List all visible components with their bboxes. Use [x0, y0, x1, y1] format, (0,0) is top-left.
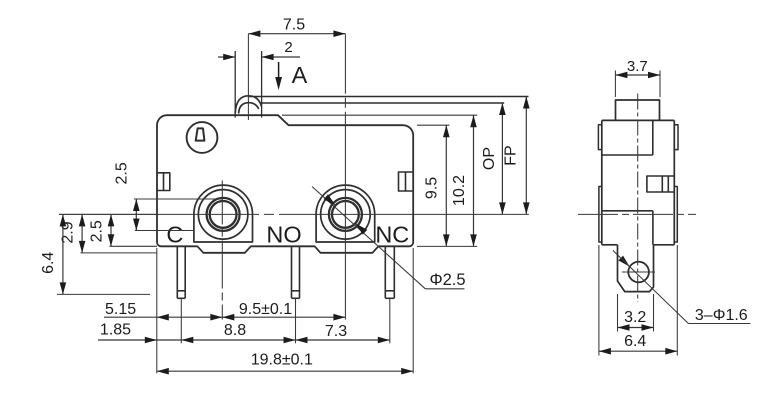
front left lower flange: [599, 187, 602, 243]
svg-text:NC: NC: [375, 222, 409, 248]
dim 3.2 line: [618, 327, 654, 329]
ref line inner-hole top ext: [134, 198, 222, 200]
dim OP: [501, 103, 503, 214]
svg-text:2.5: 2.5: [89, 220, 106, 242]
body detail circle: [187, 122, 218, 153]
dim 3.7 line: [615, 74, 660, 76]
svg-text:NO: NO: [266, 222, 301, 248]
svg-text:7.3: 7.3: [325, 323, 347, 340]
leader 3-phi1.6: [618, 256, 629, 267]
dim 9.5+-0.1: [222, 316, 345, 318]
dim 19.8+-0.1: [157, 370, 413, 372]
ref line pin bottom ext: [57, 293, 150, 295]
lever curl outer arc: [235, 96, 261, 114]
svg-text:9.5: 9.5: [424, 177, 441, 199]
dim 3.2 ext: [617, 294, 619, 332]
svg-text:8.8: 8.8: [224, 322, 246, 339]
ext left pin center: [180, 298, 182, 343]
svg-text:5.15: 5.15: [105, 301, 136, 318]
right terminal pin: [385, 246, 394, 298]
dim 2.9: [81, 214, 83, 253]
front left upper ear: [598, 125, 601, 150]
left tab: [157, 173, 170, 191]
dim FP: [525, 97, 527, 215]
dim 6.4 front ext: [598, 245, 600, 356]
lever curl left edge: [234, 51, 236, 118]
svg-text:Φ2.5: Φ2.5: [429, 271, 465, 289]
svg-text:19.8±0.1: 19.8±0.1: [251, 352, 313, 369]
C hole ring outer: [207, 198, 240, 231]
dim 5.15: [104, 316, 157, 318]
ref line notch ext: [81, 252, 158, 254]
front horizontal centerline: [578, 213, 696, 215]
svg-text:FP: FP: [503, 145, 520, 165]
right tab: [399, 172, 414, 191]
ref line B: [135, 230, 194, 232]
dim 2.5 lower: [110, 214, 112, 246]
svg-text:OP: OP: [481, 147, 498, 170]
lever arm bottom line: [262, 102, 505, 104]
dim 2 line: [218, 56, 235, 58]
detail trapezoid: [196, 128, 205, 140]
svg-text:6.4: 6.4: [40, 252, 57, 274]
terminal hole h-centerline: [622, 271, 655, 273]
ext body step top: [417, 124, 450, 126]
front vertical centerline: [637, 94, 639, 303]
dim 6.4 front line: [599, 350, 677, 352]
dim 2.5 upper: [135, 199, 137, 231]
C boss arch: [194, 185, 253, 242]
svg-text:9.5±0.1: 9.5±0.1: [239, 301, 292, 318]
svg-text:3.7: 3.7: [627, 58, 648, 75]
svg-text:2: 2: [284, 39, 292, 56]
lever curl inner arc: [239, 103, 259, 114]
centerline left stub: [59, 213, 157, 215]
C hole vertical centerline: [221, 181, 223, 320]
svg-text:6.4: 6.4: [624, 333, 646, 350]
svg-text:3–Φ1.6: 3–Φ1.6: [695, 307, 748, 324]
svg-text:A: A: [292, 62, 308, 88]
C hole ring inner: [210, 201, 237, 228]
A arrow: [278, 62, 280, 86]
dim 1.85: [98, 339, 157, 341]
NC boss arch: [316, 185, 375, 242]
NC hole ring outer: [329, 198, 362, 231]
svg-text:7.5: 7.5: [283, 17, 305, 34]
NC vertical centerline / 7.5 extension: [344, 34, 346, 320]
main horizontal centerline: [59, 213, 529, 215]
middle terminal pin: [292, 246, 300, 298]
leader phi2.5 line: [312, 187, 425, 289]
dim 3.7 ext: [614, 71, 616, 98]
ext body bottom right: [417, 245, 477, 247]
dim 8.8: [181, 339, 295, 341]
svg-text:2.5: 2.5: [114, 162, 131, 184]
terminal hole circle: [628, 262, 649, 283]
ext body right edge: [412, 248, 414, 373]
ext right pin center: [389, 298, 391, 343]
svg-text:10.2: 10.2: [451, 175, 468, 206]
front terminal lug: [618, 245, 654, 292]
roller center extension line: [247, 34, 249, 120]
NC hole outer circle: [321, 190, 371, 240]
dim 7.5 line: [248, 33, 345, 35]
svg-text:C: C: [166, 221, 183, 247]
front right upper ear: [674, 125, 678, 150]
ext body left edge: [156, 248, 158, 373]
front right lower flange: [674, 187, 677, 243]
ext body top: [282, 114, 477, 116]
front lower block: [602, 210, 653, 212]
plunger button: [616, 100, 660, 120]
front face step: [652, 120, 654, 155]
ref line boss bottom ext: [110, 245, 158, 247]
dim 9.5 right: [445, 125, 447, 246]
svg-text:1.85: 1.85: [100, 322, 131, 339]
front body outline: [602, 120, 675, 244]
lever curl right edge: [261, 51, 263, 118]
ext middle pin center: [295, 298, 297, 343]
dim 10.2: [473, 115, 475, 246]
dim 7.3: [296, 339, 390, 341]
left terminal pin: [177, 247, 185, 299]
C hole outer circle: [198, 190, 248, 240]
front side tab: [647, 176, 674, 192]
NC hole ring inner: [332, 201, 359, 228]
lever arm top line: [249, 96, 529, 98]
dim 6.4 left: [62, 214, 64, 294]
switch body outline (side view): [157, 115, 413, 253]
svg-text:3.2: 3.2: [624, 309, 646, 326]
